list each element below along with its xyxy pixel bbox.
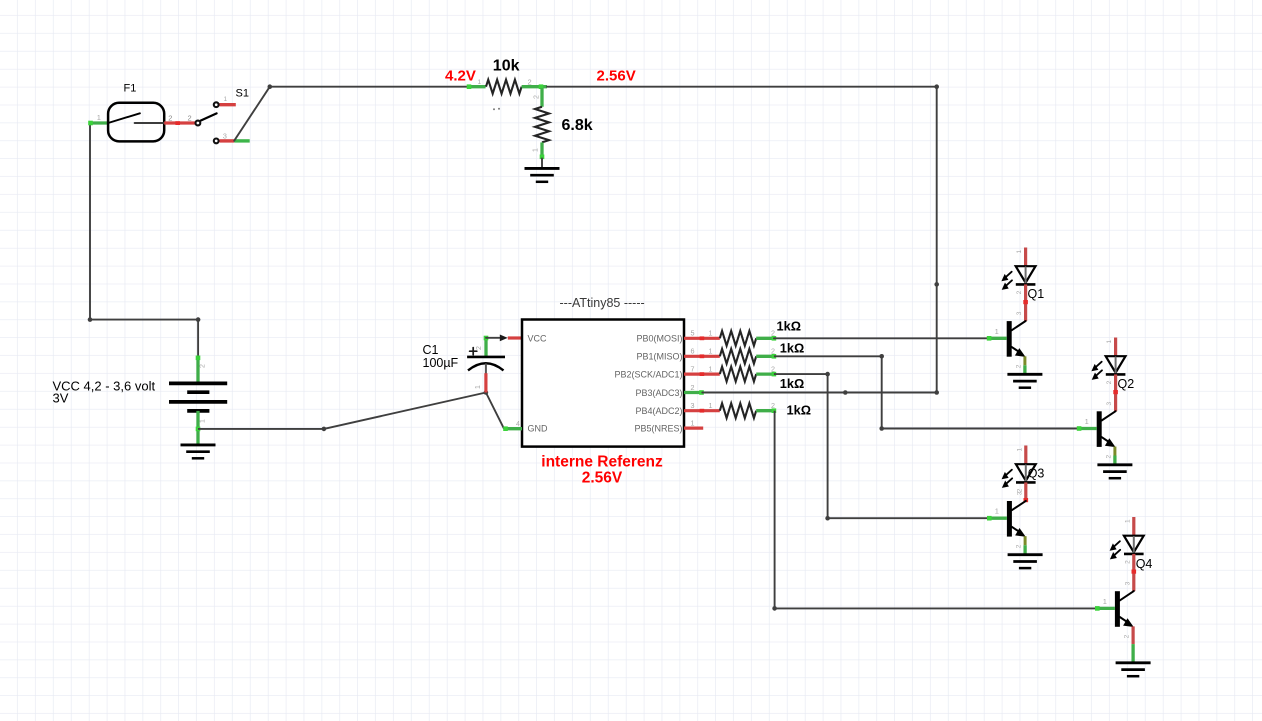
battery BT1 VCC	[169, 356, 227, 445]
svg-text:1: 1	[1124, 519, 1131, 523]
resistor 1k pin number 1 (PB2)	[709, 365, 713, 374]
svg-text:3: 3	[1016, 311, 1023, 315]
svg-text:1: 1	[709, 365, 713, 374]
LED D3 pin number 1 (rotated)	[1016, 447, 1023, 451]
LED D3 anode wire (unrouted)	[1024, 446, 1027, 465]
svg-text:1: 1	[97, 113, 101, 122]
wire junction at (198,319.6)	[196, 317, 201, 322]
wire junction at (827.6,518.2)	[825, 516, 830, 521]
LED D2 anode wire (unrouted)	[1114, 338, 1117, 357]
resistor 1k green lead (PB2)	[756, 372, 776, 377]
wire corner junction at (936.7,86.7)	[934, 84, 939, 89]
svg-text:interne Referenz: interne Referenz	[541, 454, 663, 471]
label 6.8k value	[562, 117, 593, 134]
6.8k pin number 2 (rotated)	[534, 95, 541, 99]
svg-text:2: 2	[476, 346, 483, 350]
U1 pin number 2 (PB3)	[691, 383, 695, 392]
wire battery negative to C1- and U1 GND (net GND)	[198, 393, 504, 429]
svg-text:F1: F1	[124, 83, 137, 95]
label Q2	[1118, 377, 1135, 391]
svg-text:2: 2	[691, 383, 695, 392]
svg-text:2: 2	[771, 329, 775, 338]
U1 PB0 red pin stub	[684, 336, 720, 340]
U1 pin name VCC	[528, 334, 548, 344]
LED D1 pin number 1 (rotated)	[1016, 250, 1023, 254]
wire junction at (936.7,392.5)	[934, 390, 939, 395]
svg-text:1kΩ: 1kΩ	[787, 403, 812, 418]
svg-text:PB0(MOSI): PB0(MOSI)	[636, 334, 682, 344]
transistor Q2 emitter wire (rotated pin 2)	[1113, 447, 1116, 465]
6.8k pin number 1 (rotated)	[533, 148, 540, 152]
svg-text:2: 2	[188, 114, 192, 123]
wire stub to ground symbol	[541, 159, 543, 169]
svg-text:3: 3	[1124, 581, 1131, 585]
wire S1 pin3 to top rail (net 4.2V)	[234, 87, 270, 141]
wire top rail to R-10k (net 4.2V)	[270, 86, 468, 88]
wire junction at (881.7,356.3)	[879, 354, 884, 359]
label Q3	[1028, 467, 1045, 481]
C1 pin number 1 (rotated)	[475, 385, 482, 389]
svg-text:1: 1	[995, 507, 999, 516]
svg-text:1: 1	[709, 329, 713, 338]
wire junction at (323.9,428.9)	[322, 427, 327, 432]
transistor Q3 emitter wire (rotated pin 2)	[1024, 536, 1027, 555]
svg-text:2: 2	[1124, 634, 1131, 638]
wire junction at (774.6,608.4)	[772, 606, 777, 611]
10k pin number 2	[528, 78, 532, 87]
svg-text:1: 1	[995, 327, 999, 336]
transistor Q4 pin number 1 (base)	[1103, 597, 1107, 606]
svg-text:S1: S1	[236, 88, 249, 100]
svg-text:2: 2	[1016, 290, 1023, 294]
svg-text:1: 1	[709, 347, 713, 356]
resistor 1k pin number 1 (PB0)	[709, 329, 713, 338]
U1 pin name PB1(MISO)	[636, 352, 682, 362]
svg-text:1: 1	[478, 79, 482, 86]
switch S1 (SPDT)	[196, 102, 250, 143]
LED D4 pin number 1 (rotated)	[1124, 519, 1131, 523]
F1 pin number 1	[97, 113, 101, 122]
svg-text:1kΩ: 1kΩ	[780, 376, 805, 391]
wire PB2 resistor to Q3 base	[774, 374, 989, 518]
LED D1 anode wire (unrouted)	[1024, 248, 1027, 267]
wire junction at (845.3,392.5)	[843, 390, 848, 395]
svg-text:2: 2	[771, 347, 775, 356]
LED D1 (Q1 indicator)	[1001, 266, 1035, 290]
svg-text:3V: 3V	[53, 391, 69, 406]
resistor 1k pin number 1 (PB4)	[709, 401, 713, 410]
U1 pin name PB0(MOSI)	[636, 334, 682, 344]
transistor Q2 pin number 3 (rotated)	[1106, 402, 1113, 406]
wire green lead out of 10k / node 2.56V	[522, 84, 547, 89]
svg-text:4: 4	[516, 421, 520, 428]
resistor 1k pin number 1 (PB1)	[709, 347, 713, 356]
transistor Q4 emitter pin number 2 (rotated)	[1124, 634, 1131, 638]
transistor Q1 emitter pin number 2 (rotated)	[1015, 364, 1022, 368]
transistor Q3 emitter pin number 2 (rotated)	[1016, 544, 1023, 548]
svg-text:2.56V: 2.56V	[597, 68, 636, 85]
wire green lead into 10k resistor	[467, 84, 486, 89]
svg-text:1: 1	[709, 401, 713, 410]
svg-text:2: 2	[1124, 560, 1131, 564]
U1 pin number 3 (PB4)	[691, 401, 695, 410]
svg-text:2: 2	[771, 401, 775, 410]
voltage label 4.2V	[445, 68, 476, 85]
svg-text:1kΩ: 1kΩ	[780, 341, 805, 356]
wire green lead 6.8k to ground	[540, 142, 545, 159]
U1 pin name GND	[528, 424, 549, 434]
resistor 1k pin number 2 (PB4)	[771, 401, 775, 410]
svg-text:2: 2	[1105, 455, 1112, 459]
ground symbol (Q3 emitter)	[1008, 555, 1043, 568]
LED D4 cathode wire to Q4 collector	[1132, 554, 1137, 591]
svg-text:PB5(NRES): PB5(NRES)	[634, 424, 682, 434]
wire junction at (827.6,374.1)	[825, 372, 830, 377]
svg-text:6.8k: 6.8k	[562, 117, 593, 134]
LED D1 pin number 2 (rotated)	[1016, 290, 1023, 294]
U1 PB5 red pin stub (unconnected)	[684, 427, 703, 430]
battery pin number 2 (rotated)	[200, 364, 207, 368]
svg-text:1: 1	[1016, 250, 1023, 254]
transistor Q1 base green stub	[987, 336, 1007, 341]
svg-text:PB4(ADC2): PB4(ADC2)	[635, 406, 682, 416]
svg-text:---ATtiny85 -----: ---ATtiny85 -----	[560, 296, 645, 310]
label 10k value	[493, 58, 520, 75]
U1 pin number 5 (PB0)	[691, 329, 695, 338]
wire PB4 resistor to Q4 base	[775, 411, 1097, 609]
svg-text:1: 1	[1085, 417, 1089, 426]
svg-text:2: 2	[168, 114, 172, 123]
U1 pin name PB5(NRES)	[634, 424, 682, 434]
svg-text:Q2: Q2	[1118, 377, 1135, 391]
U1 GND pin number 4	[516, 421, 520, 428]
label 1kΩ (PB4)	[787, 403, 812, 418]
LED D3 cathode wire to Q3 collector	[1024, 482, 1029, 502]
LED D4 anode wire (unrouted)	[1132, 517, 1135, 536]
wire junction at (881.7,428.5)	[879, 426, 884, 431]
F1 pin number 2	[168, 114, 172, 123]
U1 PB3 green pin stub	[684, 390, 704, 395]
svg-text:5: 5	[691, 329, 695, 338]
U1 pin name PB4(ADC2)	[635, 406, 682, 416]
resistor 1k (PB4)	[720, 403, 756, 418]
wire PB3 pin to 2.56V rail	[702, 392, 936, 394]
svg-text:GND: GND	[528, 424, 549, 434]
label 1kΩ (PB1)	[780, 341, 805, 356]
transistor Q1 pin number 3 (rotated)	[1016, 311, 1023, 315]
svg-text:3: 3	[1106, 402, 1113, 406]
wire junction at (269.8,86.7)	[268, 84, 273, 89]
LED D1 cathode wire to Q1 collector	[1023, 284, 1028, 321]
LED D2 (Q2 indicator)	[1091, 356, 1125, 380]
transistor Q2 (NPN)	[1097, 411, 1116, 447]
svg-text:7: 7	[691, 365, 695, 374]
fuse F1	[88, 103, 195, 142]
svg-text:1kΩ: 1kΩ	[777, 319, 802, 334]
transistor Q1 pin number 1 (base)	[995, 327, 999, 336]
wire PB1 resistor to Q2 base	[774, 356, 1078, 428]
transistor Q4 (NPN)	[1115, 591, 1134, 627]
label F1	[124, 83, 137, 95]
svg-text:3: 3	[1016, 491, 1023, 495]
U1 pin name PB2(SCK/ADC1)	[614, 370, 682, 380]
voltage label 2.56V	[597, 68, 636, 85]
svg-text:1: 1	[533, 148, 540, 152]
svg-text:2: 2	[1015, 364, 1022, 368]
label interne Referenz 2.56V	[541, 454, 663, 487]
svg-text:VCC: VCC	[528, 334, 548, 344]
resistor 1k (PB1)	[720, 349, 756, 364]
LED D4 (Q4 indicator)	[1110, 536, 1144, 560]
LED D2 cathode wire to Q2 collector	[1113, 374, 1118, 411]
transistor Q2 pin number 1 (base)	[1085, 417, 1089, 426]
wire junction / node C1- at (485.9,392.5)	[484, 390, 489, 395]
LED D2 pin number 2 (rotated)	[1106, 380, 1113, 384]
svg-text:10k: 10k	[493, 58, 520, 75]
svg-text:1: 1	[475, 385, 482, 389]
U1 GND pin green stub	[503, 426, 522, 431]
svg-text:1: 1	[200, 419, 207, 423]
transistor Q3 pin number 1 (base)	[995, 507, 999, 516]
svg-text:3: 3	[691, 401, 695, 410]
transistor Q4 emitter wire (rotated pin 2)	[1131, 626, 1134, 662]
LED D3 pin number 2 (rotated)	[1016, 488, 1023, 492]
resistor 6.8k	[535, 107, 549, 143]
wire top rail 2.56V to right vertical	[547, 86, 937, 88]
svg-text:1: 1	[691, 419, 695, 428]
LED D4 pin number 2 (rotated)	[1124, 560, 1131, 564]
wire F1 pin1 to battery positive (net VCC)	[90, 123, 198, 357]
resistor 1k pin number 2 (PB2)	[771, 365, 775, 374]
transistor Q4 base green stub	[1095, 606, 1115, 611]
transistor Q3 (NPN)	[1007, 501, 1026, 537]
S1 pin number 2	[188, 114, 192, 123]
U1 PB2 red pin stub	[684, 372, 720, 376]
10k pin number 1	[478, 79, 482, 86]
wire PB0 resistor to Q1 base	[774, 337, 988, 339]
svg-text:3: 3	[223, 132, 227, 141]
battery pin number 1 (rotated)	[200, 419, 207, 423]
svg-text:PB3(ADC3): PB3(ADC3)	[635, 388, 682, 398]
transistor Q3 pin number 3 (rotated)	[1016, 491, 1023, 495]
S1 pin number 3	[223, 132, 227, 141]
LED D2 pin number 1 (rotated)	[1106, 340, 1113, 344]
resistor 1k pin number 2 (PB0)	[771, 329, 775, 338]
resistor 1k green lead (PB4)	[756, 408, 776, 413]
wire junction at (936.7,284.4)	[934, 282, 939, 287]
decorative part-label dots	[493, 108, 500, 111]
capacitor C1 100uF (polarized)	[467, 335, 522, 393]
transistor Q1 (NPN)	[1007, 321, 1026, 357]
svg-text:Q3: Q3	[1028, 467, 1045, 481]
svg-text:2.56V: 2.56V	[582, 470, 623, 487]
label Q4	[1136, 557, 1153, 571]
svg-text:2: 2	[1016, 544, 1023, 548]
svg-text:2: 2	[200, 364, 207, 368]
svg-text:4.2V: 4.2V	[445, 68, 476, 85]
svg-text:Q4: Q4	[1136, 557, 1153, 571]
U1 pin number 6 (PB1)	[691, 347, 695, 356]
svg-text:Q1: Q1	[1028, 287, 1045, 301]
wire green lead from node 2.56V down to 6.8k	[540, 88, 543, 107]
LED D3 (Q3 indicator)	[1002, 464, 1036, 488]
resistor 10k	[486, 80, 522, 94]
resistor 1k (PB2)	[720, 367, 756, 382]
transistor Q2 base green stub	[1077, 426, 1097, 431]
C1 pin number 2 (rotated)	[476, 346, 483, 350]
U1 PB4 red pin stub	[684, 409, 720, 413]
resistor 1k (PB0)	[720, 331, 756, 346]
transistor Q2 emitter pin number 2 (rotated)	[1105, 455, 1112, 459]
U1 pin number 1 (PB5)	[691, 419, 695, 428]
wire junction at (90,319.6)	[88, 317, 93, 322]
label C1 / 100µF	[423, 343, 459, 370]
label 1kΩ (PB0)	[777, 319, 802, 334]
ground symbol (Q4 emitter)	[1116, 663, 1151, 676]
U1 PB1 red pin stub	[684, 354, 720, 358]
svg-text:PB1(MISO): PB1(MISO)	[636, 352, 682, 362]
resistor 1k green lead (PB0)	[756, 336, 776, 341]
S1 pin number 1	[224, 96, 228, 103]
svg-text:2: 2	[771, 365, 775, 374]
IC U1 ATtiny85 body	[522, 320, 684, 447]
svg-text:1: 1	[1103, 597, 1107, 606]
transistor Q3 base green stub	[987, 516, 1007, 521]
wire right vertical rail down to PB3 (net 2.56V)	[936, 87, 938, 393]
ground symbol (Q2 emitter)	[1097, 465, 1132, 478]
resistor 1k pin number 2 (PB1)	[771, 347, 775, 356]
label 1kΩ (PB2)	[780, 376, 805, 391]
ground symbol (battery)	[181, 445, 216, 458]
label S1	[236, 88, 249, 100]
svg-text:C1: C1	[423, 343, 439, 357]
U1 pin number 7 (PB2)	[691, 365, 695, 374]
svg-text:1: 1	[224, 96, 228, 103]
transistor Q4 pin number 3 (rotated)	[1124, 581, 1131, 585]
svg-text:PB2(SCK/ADC1): PB2(SCK/ADC1)	[614, 370, 682, 380]
svg-text:1: 1	[1106, 340, 1113, 344]
svg-text:2: 2	[534, 95, 541, 99]
svg-text:2: 2	[1106, 380, 1113, 384]
svg-text:1: 1	[1016, 447, 1023, 451]
ground symbol (voltage divider)	[525, 168, 560, 181]
svg-text:6: 6	[691, 347, 695, 356]
U1 pin name PB3(ADC3)	[635, 388, 682, 398]
svg-text:100µF: 100µF	[423, 356, 459, 370]
ground symbol (Q1 emitter)	[1007, 374, 1042, 387]
label Q1	[1028, 287, 1045, 301]
transistor Q1 emitter wire (rotated pin 2)	[1023, 356, 1026, 374]
resistor 1k green lead (PB1)	[756, 354, 776, 359]
label VCC 4,2 - 3,6 volt / 3V	[53, 379, 156, 406]
